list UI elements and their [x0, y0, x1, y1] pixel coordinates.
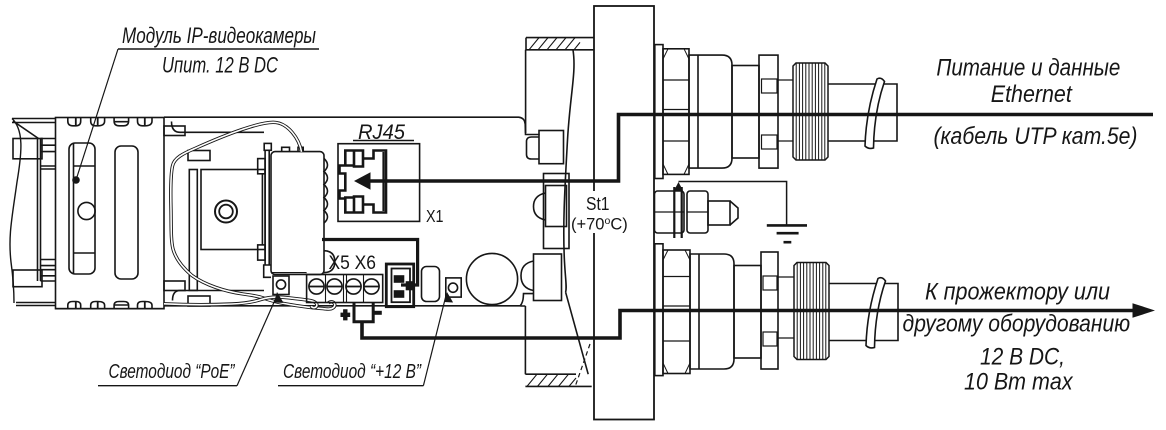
lens circle outer	[215, 201, 237, 223]
bottom cable wrap band	[866, 278, 886, 348]
svg-text:X1: X1	[426, 206, 444, 226]
svg-text:Uпит. 12 В DC: Uпит. 12 В DC	[162, 53, 278, 78]
tube break line left	[10, 119, 21, 304]
svg-text:(+70оС): (+70оС)	[571, 215, 628, 234]
connector tab 1	[395, 276, 404, 282]
arrowhead right	[1133, 303, 1156, 318]
module bottom tab 1	[68, 302, 81, 309]
terminal block dividers	[326, 275, 364, 303]
12V label underline	[278, 385, 423, 387]
svg-text:Ethernet: Ethernet	[991, 81, 1073, 108]
top gland knurled nut	[793, 63, 828, 160]
top gland lock nut facets	[762, 79, 778, 93]
housing break line	[564, 50, 574, 292]
sensor bracket left cap bottom	[258, 245, 265, 260]
housing top wall outline	[526, 38, 594, 133]
camera body plate	[189, 170, 197, 291]
camera module body	[56, 118, 165, 309]
RJ45 box	[338, 144, 420, 222]
module right pin top	[164, 126, 185, 136]
camera plate cap top	[188, 151, 210, 161]
LED 12V square	[446, 278, 461, 297]
bottom gland neck	[734, 266, 761, 359]
standoff middle bump	[534, 193, 546, 220]
middle gland hex nut 2	[687, 191, 708, 233]
lens circle inner	[219, 205, 233, 219]
pcb module D bump	[324, 251, 335, 273]
sensor bracket left cap top	[258, 159, 265, 174]
pcb module bottom foot	[264, 265, 271, 277]
PoE leader line	[237, 296, 277, 386]
12V leader line	[423, 294, 446, 386]
12V leader arrowhead	[443, 291, 453, 303]
module right slot	[115, 146, 138, 279]
svg-text:12 В DC,: 12 В DC,	[980, 344, 1065, 371]
svg-text:10 Вт max: 10 Вт max	[964, 369, 1073, 396]
housing bottom wall hatch	[527, 374, 576, 386]
connector inner frame	[392, 269, 411, 303]
lens hood slant top	[13, 121, 39, 139]
terminal screw 4	[364, 279, 379, 294]
bottom gland knurled nut	[794, 263, 829, 360]
housing top wall hatch	[529, 38, 580, 50]
tube top edge right segment	[164, 117, 540, 134]
middle gland plug cone	[730, 201, 738, 225]
ethernet wire with arrow into RJ45	[368, 115, 1154, 182]
module top tab 2	[91, 118, 105, 126]
svg-text:St1: St1	[586, 193, 610, 214]
top gland hex nut	[663, 49, 689, 175]
rail corner top	[172, 122, 265, 133]
bottom gland lock nut	[761, 252, 778, 369]
tube top edge left segment	[12, 119, 56, 123]
housing bottom cone slant	[566, 292, 589, 374]
bottom gland collar lines	[778, 277, 794, 338]
module bottom tab 4	[138, 302, 153, 309]
standoff bottom body	[534, 254, 562, 301]
connector nub	[407, 282, 413, 290]
bottom gland hex bevels	[663, 250, 690, 374]
rear flange plate St1	[594, 6, 654, 420]
svg-text:(кабель UTP кат.5е): (кабель UTP кат.5е)	[934, 123, 1138, 150]
X1 to connector wire	[322, 240, 418, 286]
module top tab 4	[138, 118, 153, 126]
lens hood body	[38, 139, 56, 282]
top cable sheath	[828, 84, 897, 141]
svg-text:Светодиод “+12 В”: Светодиод “+12 В”	[283, 361, 422, 383]
RJ45 label underline	[353, 140, 414, 142]
LED 12V circle	[448, 283, 457, 292]
sensor bracket strip	[265, 150, 269, 265]
leader dot module	[72, 176, 80, 184]
sensor bracket left rail	[261, 174, 263, 245]
lens hood inner lines	[41, 145, 56, 276]
top gland hex bevels	[663, 49, 689, 175]
module label underline	[118, 48, 319, 50]
module left slot	[69, 143, 95, 274]
connector tab 2	[395, 291, 404, 297]
wire plug stub	[354, 303, 373, 322]
camera power wire 2	[164, 297, 317, 308]
ground wire	[679, 182, 787, 226]
housing hidden edge dashed	[575, 344, 590, 387]
camera pcb module	[271, 152, 324, 275]
PoE leader arrowhead	[272, 291, 284, 305]
module top tab 1	[68, 118, 81, 126]
svg-text:Светодиод “PoE”: Светодиод “PoE”	[109, 361, 236, 383]
standoff middle outer	[544, 174, 570, 249]
gland bond arrow	[674, 182, 683, 191]
terminal screw 1	[309, 279, 324, 294]
middle gland washer	[674, 187, 681, 238]
bottom cable sheath	[829, 284, 898, 341]
svg-text:X5 X6: X5 X6	[329, 252, 377, 274]
arrowhead into RJ45	[354, 172, 371, 190]
middle gland plug body	[708, 201, 730, 225]
module bottom edge	[56, 308, 165, 310]
module bottom tab 3	[114, 302, 129, 309]
LED PoE square	[273, 276, 289, 295]
svg-text:RJ45: RJ45	[358, 121, 405, 144]
lens hood top foot	[13, 139, 42, 159]
module right pin bottom	[164, 281, 185, 291]
tube bottom edge left segment	[16, 303, 56, 306]
camera power wire 1	[171, 122, 335, 309]
bottom gland body	[690, 254, 734, 369]
sensor bracket cap top	[264, 143, 271, 150]
middle gland hex nut 1	[655, 191, 685, 233]
standoff bottom bump	[521, 261, 534, 291]
top gland step	[655, 45, 663, 179]
inductor rounded rect	[422, 267, 440, 302]
PoE label underline	[98, 385, 237, 387]
module bottom tab 2	[91, 302, 105, 309]
pcb edge line	[271, 272, 307, 274]
plus sign	[341, 309, 351, 320]
RJ45 jack outline	[340, 151, 387, 213]
lens hood bottom foot	[13, 270, 42, 287]
standoff top body	[539, 131, 564, 164]
12V wire	[362, 311, 1146, 339]
tube bottom edge right segment	[164, 294, 534, 306]
ground symbol	[767, 224, 807, 227]
top gland body	[689, 55, 732, 168]
St1 text backing	[570, 191, 629, 233]
top gland knurl stripes	[796, 63, 825, 160]
svg-text:К прожектору или: К прожектору или	[925, 279, 1110, 306]
top gland lock nut	[759, 55, 778, 168]
top gland hex facets	[663, 80, 689, 141]
module top tab 3	[114, 118, 129, 126]
standoff middle body	[546, 186, 567, 227]
LED PoE circle	[276, 280, 285, 289]
svg-text:Питание и данные: Питание и данные	[936, 55, 1120, 82]
standoff top bump	[527, 137, 540, 159]
terminal screw 3	[346, 279, 361, 294]
bottom gland hex facets	[663, 277, 690, 342]
bottom gland knurl stripes	[797, 263, 826, 360]
bottom gland lock nut facets	[763, 276, 777, 290]
pcb module scallops	[324, 159, 328, 224]
pcb module top bumps	[282, 147, 304, 151]
bottom gland hex nut	[663, 250, 690, 374]
bottom gland step	[655, 244, 663, 376]
module slot circle	[78, 202, 95, 219]
connector X2 thick body	[386, 264, 413, 307]
top gland neck	[732, 66, 759, 159]
minus sign	[375, 311, 382, 315]
capacitor big circle	[466, 253, 517, 304]
top gland collar lines	[778, 80, 793, 141]
terminal screw 2	[327, 279, 342, 294]
terminal block X5 X6	[307, 275, 383, 303]
camera plate cap bottom	[188, 296, 210, 306]
camera body square	[201, 170, 265, 250]
module left slot inner edge	[74, 144, 96, 274]
leader line module label	[76, 49, 118, 180]
top cable wrap band	[865, 78, 885, 148]
housing bottom wall outline	[521, 306, 592, 386]
svg-text:Модуль IP-видеокамеры: Модуль IP-видеокамеры	[122, 23, 316, 48]
rail corner bottom	[173, 291, 265, 301]
svg-text:другому оборудованию: другому оборудованию	[903, 311, 1131, 338]
